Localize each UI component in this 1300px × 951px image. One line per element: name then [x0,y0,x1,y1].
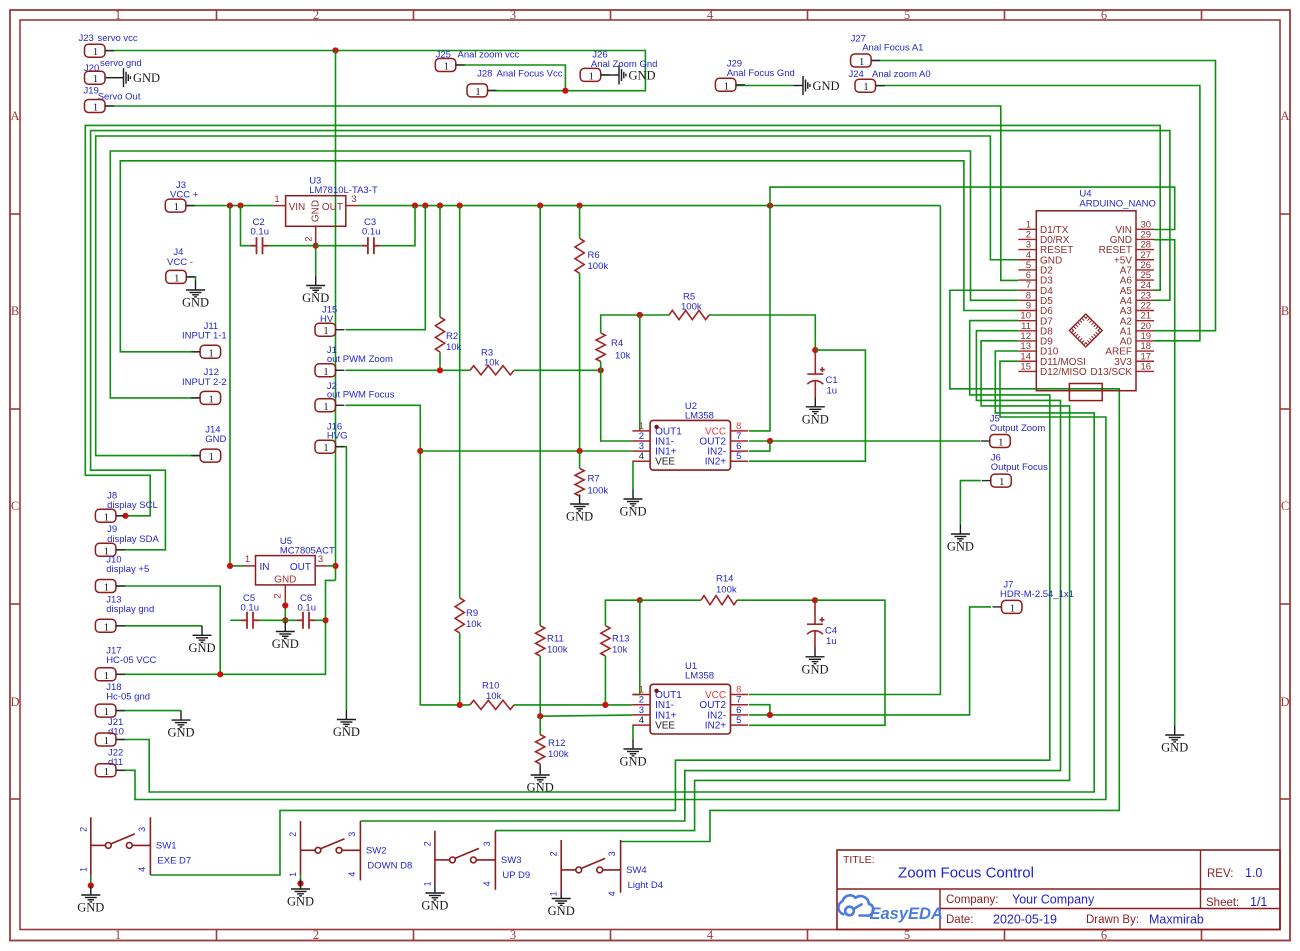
svg-text:R10: R10 [482,681,499,692]
svg-text:J19: J19 [84,86,99,97]
Arduino pin 20 A1 [1120,321,1154,338]
svg-text:100k: 100k [547,645,568,656]
svg-text:Anal Focus Vcc: Anal Focus Vcc [497,69,563,80]
svg-text:10k: 10k [486,691,502,702]
node U1 OUT2/IN2- junction [767,712,773,718]
svg-text:DOWN D8: DOWN D8 [367,860,412,871]
svg-text:0.1u: 0.1u [362,227,381,238]
svg-text:GND: GND [629,69,656,83]
svg-text:1u: 1u [826,636,837,647]
node rail R6 junction [577,203,583,209]
Arduino pin 24 A5 [1120,280,1154,297]
svg-text:GND: GND [205,434,226,445]
Arduino pin 19 A0 [1120,331,1154,348]
svg-text:2020-05-19: 2020-05-19 [993,913,1057,927]
wire J25 branch [456,65,566,91]
wire R12 bottom to ground [539,764,541,766]
resistor R5 [669,310,709,319]
wire U2 OUT2 to J5 Output Zoom [749,440,980,442]
svg-text:1: 1 [208,347,214,359]
wire VCC +10V rail right of U3 [358,205,941,207]
svg-text:1: 1 [104,582,110,594]
wire C2 riser [241,206,251,246]
capacitor C6 [297,612,315,629]
svg-text:A: A [10,109,19,123]
svg-text:1: 1 [78,867,88,872]
svg-text:1: 1 [863,81,869,93]
wire J9 display SDA to Arduino A4 [91,131,1170,550]
svg-text:1: 1 [93,102,99,114]
ground symbol U3 [306,276,325,292]
wire J19 Servo Out to Arduino D3 [105,106,1018,280]
wire Arduino D7 to SW1 [150,321,1049,875]
svg-text:D12/MISO: D12/MISO [1040,367,1087,378]
svg-text:OUT: OUT [290,562,311,573]
svg-text:1: 1 [998,437,1004,449]
wire Arduino GND pin29 to ground [1154,240,1175,726]
svg-text:3: 3 [607,851,617,856]
svg-text:INPUT 1-1: INPUT 1-1 [182,331,227,342]
svg-text:VCC -: VCC - [167,257,193,268]
svg-text:1: 1 [104,670,110,682]
frame column labels bottom [115,928,1107,942]
svg-text:4: 4 [347,872,357,877]
wire U1 OUT2 to IN2- and J7 [749,705,770,715]
Arduino pin 13 D10 [1018,341,1058,358]
svg-text:GND: GND [566,510,593,524]
svg-text:GND: GND [548,904,575,918]
wire C5-C6 line [230,619,241,621]
svg-text:HDR-M-2.54_1x1: HDR-M-2.54_1x1 [1000,589,1074,600]
ground symbol C1 [806,397,825,413]
ground symbol J18 [172,711,191,727]
svg-text:IN2+: IN2+ [705,721,727,732]
wire R13 bottom [604,656,606,705]
svg-text:1: 1 [323,442,329,454]
capacitor C3 [362,237,380,254]
svg-text:display gnd: display gnd [106,604,154,615]
svg-text:GND: GND [333,725,360,739]
svg-text:1: 1 [274,194,279,205]
wire J27 Anal Focus A1 to Arduino A1 [871,61,1215,331]
svg-text:100k: 100k [588,486,609,497]
node R11/R12 junction [537,713,543,719]
svg-text:1: 1 [475,86,481,98]
svg-text:1: 1 [323,366,329,378]
svg-text:Zoom Focus Control: Zoom Focus Control [898,865,1034,882]
svg-text:10k: 10k [466,619,482,630]
svg-text:Sheet:: Sheet: [1206,897,1239,909]
svg-text:servo gnd: servo gnd [100,58,142,69]
ground symbol J13 [193,626,212,642]
node C1 top junction [812,347,818,353]
svg-text:LM7810L-TA3-T: LM7810L-TA3-T [309,185,378,196]
svg-text:SW4: SW4 [626,865,647,876]
wire R2 top from rail [439,206,441,317]
wire R14 riser to U1 OUT1 [639,600,641,694]
Arduino pin 9 D6 [1018,301,1053,318]
wire SW2 pin1 to ground [300,875,302,880]
wire U5 IN riser [230,206,244,566]
wire Arduino D10 to J21 d10 [116,351,1094,792]
svg-text:R13: R13 [612,634,629,645]
wire U1 VEE to ground [631,725,634,739]
svg-text:2: 2 [313,8,319,22]
node rail J15 junction [422,203,428,209]
Arduino pin 11 D8 [1018,321,1053,338]
node U5 IN junction [227,563,233,569]
node R14 left junction [637,597,643,603]
resistor R13 [601,626,610,656]
svg-text:2: 2 [78,827,88,832]
U5 pin 2 stub [284,585,286,600]
svg-text:SW2: SW2 [366,845,387,856]
svg-text:1: 1 [115,928,121,942]
wire J18 Hc-05 gnd to ground [116,710,181,712]
svg-text:3: 3 [318,554,323,565]
svg-text:Company:: Company: [946,894,998,906]
svg-text:2: 2 [313,928,319,942]
node R5 left junction [637,312,643,318]
svg-text:out PWM Zoom: out PWM Zoom [327,354,393,365]
frame row ticks left [10,214,20,799]
wire SW1 pin1 to ground [90,876,92,886]
svg-text:GND: GND [274,575,296,586]
Arduino center chip diamond [1071,316,1100,345]
svg-text:J28: J28 [477,69,492,80]
node rail R11 junction [537,203,543,209]
Arduino pin 27 +5V [1114,250,1154,267]
frame column labels top [115,8,1107,22]
svg-text:100k: 100k [716,585,737,596]
ground symbol R12 [531,766,550,782]
wire J6 Output Focus to ground [960,481,980,525]
svg-text:R2: R2 [446,331,458,342]
svg-text:GND: GND [421,899,448,913]
svg-text:IN: IN [260,562,270,573]
svg-text:4: 4 [707,8,714,22]
svg-text:2: 2 [422,841,432,846]
svg-text:Anal Focus Gnd: Anal Focus Gnd [727,68,795,79]
wire C2-C3 ground link [269,245,362,247]
svg-text:R7: R7 [588,474,600,485]
wire J29 Anal Focus Gnd [736,85,794,87]
frame column ticks bottom [217,930,1202,941]
svg-text:100k: 100k [681,302,702,313]
ground symbol J29 (rotated) [794,76,810,95]
svg-text:GND: GND [167,726,194,740]
svg-text:IN2+: IN2+ [705,457,727,468]
node rail R9 junction [457,203,463,209]
node U5 pin2 dot b [282,617,288,623]
wire R4 bottom [600,362,602,371]
Arduino pin 15 D12/MISO [1018,361,1087,378]
svg-text:D: D [1280,695,1289,709]
svg-text:GND: GND [802,412,829,426]
Arduino pin 7 D4 [1018,280,1053,297]
wire J20 servo gnd [105,77,114,79]
wire C3 riser [380,206,415,246]
svg-text:10k: 10k [612,645,628,656]
svg-text:5: 5 [904,8,910,22]
svg-text:GND: GND [801,662,828,676]
Arduino pin 23 A4 [1120,290,1154,307]
wire R2 bottom to J1 net [439,352,441,370]
svg-text:SW1: SW1 [156,840,177,851]
svg-text:5: 5 [736,715,741,726]
ground symbol GND29 [1165,726,1184,742]
wire R7 bottom to ground [579,495,581,497]
ground symbol U5 [276,622,295,638]
ground symbol U2 VEE [624,490,643,506]
wire R5 riser to U2 OUT1 [639,315,641,431]
wire Arduino D8 to SW2 [360,331,1060,821]
node J17/J10 junction [217,671,223,677]
svg-text:3: 3 [510,928,516,942]
wire U5 GND pin2 [284,600,286,620]
Arduino pin 3 RESET [1018,240,1073,257]
resistor R6 [575,238,584,273]
wire U3 GND pin2 to ground [315,246,317,276]
svg-text:GND: GND [133,71,160,85]
Arduino pin 2 D0/RX [1018,229,1069,246]
title block outline [837,850,1280,930]
wire VCC rail left segment J3 to U3 VIN [186,205,273,207]
ground symbol U1 VEE [624,740,643,756]
node J8 stub junction [122,513,128,519]
svg-text:2: 2 [288,832,298,837]
svg-text:R6: R6 [588,250,600,261]
svg-text:GND: GND [77,901,104,915]
svg-text:4: 4 [137,867,147,872]
wire R9 top from rail [459,206,461,598]
wire Arduino D11 to J22 d11 [116,361,1106,799]
svg-text:4: 4 [707,928,714,942]
wire Arduino D9 to SW3 [495,341,1069,831]
svg-text:REV:: REV: [1207,868,1233,880]
svg-text:VEE: VEE [655,457,675,468]
switch SW3 UP D9 [435,831,496,890]
node SW2 gnd junction [297,880,303,886]
capacitor C1 (polar) [807,350,825,398]
svg-text:GND: GND [188,641,215,655]
Arduino NANO U4 body [1036,211,1136,391]
svg-text:VEE: VEE [655,721,675,732]
wire U2 VCC riser and Arduino VIN feed [749,187,1175,431]
svg-text:R11: R11 [547,634,564,645]
ground symbol J4 [186,281,205,297]
svg-text:1: 1 [724,80,730,92]
svg-text:SW3: SW3 [501,855,522,866]
wire R12 top [539,716,541,734]
Arduino pin 4 GND [1018,250,1062,267]
wire J16 HVG to ground [336,447,347,710]
switch SW4 Light D4 [561,840,620,893]
Arduino pin 29 GND [1110,229,1154,246]
ground symbol SW3 [425,884,444,900]
wire R11/R12 node to U1 IN1+ [540,715,632,716]
svg-text:Light D4: Light D4 [628,880,663,891]
Arduino pin 30 VIN [1115,219,1154,236]
svg-text:UP D9: UP D9 [502,870,530,881]
svg-text:A: A [1280,109,1289,123]
resistor R4 [596,333,605,362]
svg-text:C: C [11,499,19,513]
svg-text:15: 15 [1020,361,1031,372]
svg-text:GND: GND [813,79,840,93]
svg-text:100k: 100k [548,749,569,760]
resistor R11 [536,626,545,656]
U5 pin 1 stub [244,565,256,567]
node R9/R10 junction [457,702,463,708]
capacitor C4 (polar) [807,600,825,648]
node rail R2 junction [437,203,443,209]
resistor R9 [455,598,464,633]
resistor R10 [470,700,514,709]
svg-text:3: 3 [137,827,147,832]
svg-text:3: 3 [510,8,516,22]
ground symbol C4 [806,647,825,663]
switch SW1 EXE D7 [91,817,151,876]
svg-text:3: 3 [351,194,356,205]
svg-text:0.1u: 0.1u [241,603,260,614]
wire C4 node to U1 IN2+ [749,600,885,725]
svg-text:INPUT 2-2: INPUT 2-2 [182,377,227,388]
svg-text:out PWM Focus: out PWM Focus [327,389,395,400]
wire R9 bottom [459,633,461,705]
wire R3 right to R4 node [514,369,601,371]
Arduino pin 5 D2 [1018,260,1053,277]
svg-text:1: 1 [323,325,329,337]
wire J4 VCC- to ground [186,277,195,281]
Arduino pin 17 3V3 [1114,351,1154,368]
node U5 pin2 dot a [282,602,288,608]
svg-text:1: 1 [104,735,110,747]
wire R7 top [579,451,581,468]
wire U2 VEE to ground [631,461,634,489]
wire J26 Anal Zoom Gnd [601,74,610,76]
frame row labels left [10,109,19,709]
svg-text:1: 1 [104,766,110,778]
svg-text:ARDUINO_NANO: ARDUINO_NANO [1079,199,1156,210]
wire J14 GND to Arduino GND pin4 [96,136,1019,456]
Arduino pin 14 D11/MOSI [1018,351,1086,368]
wire J17 stub to +5 node [116,673,220,675]
svg-text:1: 1 [999,476,1005,488]
ground symbol R7 [570,495,589,511]
svg-text:Drawn By:: Drawn By: [1086,914,1139,926]
Arduino pin 1 D1/TX [1018,219,1068,236]
wire C6 to +5 node [315,619,326,621]
svg-text:Maxmirab: Maxmirab [1149,913,1204,927]
svg-text:J23: J23 [79,33,94,44]
svg-text:2: 2 [273,593,284,598]
svg-text:1: 1 [93,46,99,58]
svg-text:TITLE:: TITLE: [843,854,875,866]
svg-text:1: 1 [208,393,214,405]
svg-text:Your Company: Your Company [1012,893,1095,907]
ground symbol J26 (rotated) [610,66,626,85]
wire Arduino D4 to SW4 [621,290,1120,841]
wire J1 out PWM Zoom to R3 / U2 IN1- [346,369,471,371]
svg-text:Anal Focus A1: Anal Focus A1 [862,43,923,54]
wire R5 right to C1 node [709,315,815,350]
svg-text:R9: R9 [466,608,478,619]
svg-text:1u: 1u [827,386,838,397]
wire U2 IN2- feedback [749,441,770,451]
svg-text:C4: C4 [825,626,837,637]
wire J24 Anal zoom A0 to Arduino A0 [876,86,1200,341]
svg-text:1: 1 [1010,602,1016,614]
svg-text:B: B [11,304,19,318]
svg-text:1: 1 [288,872,298,877]
wire R11 bottom to R12 node [539,656,541,716]
svg-text:GND: GND [947,540,974,554]
node rail C2 junction [237,203,243,209]
node R13/U1 junction [602,702,608,708]
wire R14 right to C4 node [737,599,815,601]
ground symbol J6 [951,525,970,541]
wire U1 OUT1 stub link [632,694,639,696]
node rail U2-VCC/VIN junction [767,203,773,209]
svg-text:1: 1 [422,881,432,886]
svg-text:16: 16 [1141,361,1152,372]
wire U1 IN2- to J7 riser [749,607,991,715]
resistor R7 [575,468,584,496]
ground symbol SW4 [552,889,571,905]
svg-text:1: 1 [245,554,250,565]
svg-text:1: 1 [588,70,594,82]
svg-text:1: 1 [104,621,110,633]
svg-text:0.1u: 0.1u [251,227,270,238]
wire J2 out PWM Focus down to R10 [346,405,471,705]
node rail C3 junction [412,203,418,209]
title block dividers [837,850,1280,930]
svg-text:GND: GND [619,755,646,769]
Arduino pin 18 AREF [1105,341,1154,358]
svg-text:display +5: display +5 [106,564,149,575]
Arduino pin 26 A7 [1120,260,1154,277]
svg-text:3: 3 [482,841,492,846]
node rail U5-IN junction [227,203,233,209]
node SW1 gnd junction [88,882,94,888]
wire net servo-vcc J23 to J25/J28 [105,51,645,91]
U3 pin 1 stub [273,205,285,207]
svg-text:1: 1 [323,401,329,413]
wire J11 INPUT1-1 to Arduino D6 [120,161,1018,352]
svg-text:D13/SCK: D13/SCK [1090,367,1132,378]
node junction J25/J28 [562,88,568,94]
svg-text:EXE D7: EXE D7 [157,855,191,866]
svg-text:1: 1 [208,451,214,463]
svg-text:1: 1 [549,891,559,896]
wire R4 top to R5 line [601,315,669,333]
svg-text:GND: GND [1161,741,1188,755]
svg-text:1: 1 [174,272,180,284]
wire U5 OUT to +5 node [327,565,335,567]
svg-text:1: 1 [859,56,865,68]
ground symbol SW1 [81,886,100,902]
svg-text:display SDA: display SDA [107,534,159,545]
node junction J23 vertical feed [332,47,338,53]
svg-text:R4: R4 [611,338,623,349]
wire J13 display gnd to ground [116,625,202,627]
svg-text:5: 5 [736,451,741,462]
svg-text:4: 4 [639,451,644,462]
Arduino pin 28 RESET [1099,240,1154,257]
svg-text:10k: 10k [615,351,631,362]
Arduino pin 8 D5 [1018,290,1053,307]
